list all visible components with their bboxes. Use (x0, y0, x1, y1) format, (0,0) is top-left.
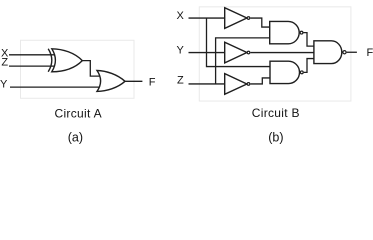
svg-text:F: F (367, 47, 373, 59)
xor-gate G1 body (52, 49, 83, 72)
wire inverter U2 output to NAND G5 middle input (250, 52, 314, 54)
nand-gate G5 (3-input) body (314, 41, 342, 64)
wire X branch down to NAND G4 top input (207, 18, 271, 67)
circuit A boundary box (21, 40, 135, 98)
wire Y input to OR gate (10, 86, 99, 88)
wire inverter U1 output to NAND G3 top input (250, 18, 269, 27)
nand-gate G5 bubble (343, 51, 346, 54)
inverter U3 bubble (247, 83, 250, 86)
svg-text:F: F (149, 77, 156, 89)
svg-text:(a): (a) (68, 130, 83, 144)
wire Z input to XOR gate (9, 65, 54, 67)
wire inverter U3 output to NAND G4 bottom input (250, 78, 270, 84)
xor-gate G1 leading input arc (48, 49, 52, 72)
inverter U3 (Z') triangle (225, 74, 247, 95)
wire XOR output to OR gate top input (82, 61, 99, 77)
svg-text:Circuit A: Circuit A (55, 107, 102, 121)
nand-gate G3 bubble (300, 31, 303, 34)
wire NAND G4 output to NAND G5 bottom input (304, 59, 314, 73)
wire NAND G5 output to F (347, 51, 357, 53)
svg-text:Y: Y (0, 78, 8, 90)
wire Y input to inverter U2 (189, 52, 225, 54)
svg-text:Z: Z (177, 75, 184, 87)
inverter U2 bubble (247, 51, 250, 54)
inverter U1 bubble (247, 17, 250, 20)
svg-text:Y: Y (177, 45, 185, 57)
wire OR gate output to F (125, 80, 142, 82)
circuit B boundary box (199, 7, 351, 101)
nand-gate G3 body (270, 21, 299, 43)
wire NAND G3 output to NAND G5 top input (303, 33, 314, 47)
or-gate G2 body (97, 71, 125, 92)
nand-gate G4 bubble (300, 71, 303, 74)
wire Z branch up to NAND G3 bottom input (216, 38, 271, 84)
inverter U2 (Y') triangle (225, 42, 247, 63)
wire X input to inverter U1 (189, 17, 225, 19)
svg-text:Z: Z (1, 56, 8, 68)
svg-text:(b): (b) (268, 131, 283, 145)
svg-text:Circuit B: Circuit B (252, 106, 300, 120)
wire Z input to inverter U3 (189, 83, 225, 85)
svg-text:X: X (177, 10, 185, 22)
inverter U1 (X') triangle (225, 8, 247, 29)
nand-gate G4 body (270, 61, 300, 83)
wire X input to XOR gate (9, 54, 54, 56)
